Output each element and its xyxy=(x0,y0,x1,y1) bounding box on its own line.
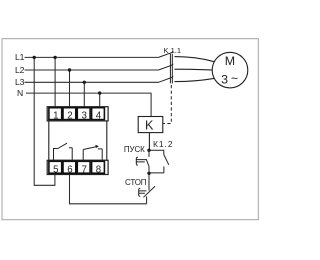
wire L3 line xyxy=(25,81,159,83)
contactor K1.1 linkage double bar xyxy=(170,54,172,84)
start button actuator xyxy=(136,157,146,165)
svg-text:K: K xyxy=(145,119,154,133)
wire N line to coil K xyxy=(26,93,151,116)
start button ПУСК (NO) xyxy=(146,150,149,173)
terminal 7 box xyxy=(77,161,90,173)
internal contact 7-8 (NC) xyxy=(83,146,102,160)
terminal 6 box xyxy=(63,161,76,173)
svg-text:2: 2 xyxy=(67,110,72,121)
svg-text:8: 8 xyxy=(96,164,101,175)
stop button СТОП (NC) xyxy=(143,173,155,204)
svg-text:3: 3 xyxy=(82,110,87,121)
terminal 8 box xyxy=(92,161,105,173)
wire pole 3 to motor xyxy=(175,78,215,81)
svg-text:7: 7 xyxy=(82,164,87,175)
terminal 2 box xyxy=(63,108,76,120)
linkage dashed line to coil K xyxy=(163,85,171,124)
wire N to terminal 4 xyxy=(99,93,101,107)
svg-text:1: 1 xyxy=(53,110,58,121)
svg-text:ПУСК: ПУСК xyxy=(124,145,145,154)
motor M circle xyxy=(212,52,248,88)
contactor K1.1 pole 3 blade xyxy=(159,76,174,82)
wire terminal 6 to stop button xyxy=(70,175,147,204)
internal contact 5-6 (NO) xyxy=(54,143,73,160)
svg-text:6: 6 xyxy=(67,164,72,175)
relay body outline xyxy=(49,121,107,160)
contactor K1.1 pole 1 blade xyxy=(159,51,174,57)
wire pole 1 to motor xyxy=(175,57,215,62)
svg-text:4: 4 xyxy=(96,110,102,121)
wire L1 bypass to terminal 5 xyxy=(34,57,55,185)
wire L1 line xyxy=(25,56,159,58)
svg-text:~: ~ xyxy=(231,71,238,85)
contact K1.2 branch xyxy=(149,150,169,173)
internal contact 7-8 arrow tip xyxy=(96,145,98,147)
svg-text:L1: L1 xyxy=(15,52,25,62)
relay bottom terminal strip xyxy=(47,160,108,174)
wire L2 line xyxy=(25,69,159,71)
svg-text:К1.2: К1.2 xyxy=(153,139,174,149)
node start junction xyxy=(147,149,150,152)
svg-text:N: N xyxy=(17,88,23,98)
wire coil K to start button xyxy=(148,133,150,151)
stop button actuator xyxy=(139,188,147,196)
svg-text:M: M xyxy=(225,54,235,68)
svg-text:L2: L2 xyxy=(15,65,25,75)
node L3 junction xyxy=(83,81,86,84)
svg-text:3: 3 xyxy=(221,72,228,86)
node stop junction xyxy=(147,172,150,175)
node N junction xyxy=(98,91,101,94)
terminal 1 box xyxy=(49,108,62,120)
border frame xyxy=(2,39,258,220)
node L1-terminal1 junction xyxy=(53,56,56,59)
wire pole 2 to motor xyxy=(175,68,213,71)
node L1-bypass junction xyxy=(33,56,36,59)
wire L2 to terminal 2 xyxy=(69,70,71,107)
node L2 junction xyxy=(68,68,71,71)
svg-text:5: 5 xyxy=(53,164,58,175)
svg-text:K 1.1: K 1.1 xyxy=(164,46,182,55)
coil K box xyxy=(138,117,163,133)
relay top terminal strip xyxy=(47,107,108,121)
svg-text:L3: L3 xyxy=(15,77,25,87)
wire L1 to terminal 1 xyxy=(54,57,56,106)
terminal 5 box xyxy=(49,161,62,173)
terminal 4 box xyxy=(92,108,105,120)
svg-text:СТОП: СТОП xyxy=(125,178,147,187)
contactor K1.1 pole 2 blade xyxy=(159,64,174,70)
terminal 3 box xyxy=(77,108,90,120)
wire L3 to terminal 3 xyxy=(83,82,85,107)
